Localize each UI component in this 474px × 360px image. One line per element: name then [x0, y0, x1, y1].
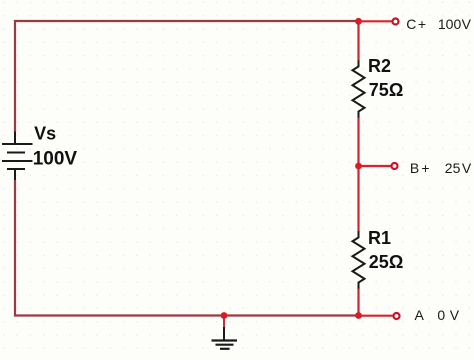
svg-text:100V: 100V	[33, 149, 78, 170]
battery Vs	[2, 132, 33, 181]
node C label	[406, 16, 471, 32]
terminal circle A	[394, 313, 400, 319]
svg-text:V: V	[450, 307, 460, 323]
wire: stub to terminal C	[359, 20, 393, 22]
wire: right vertical, R2 to B junction to R1	[357, 117, 359, 231]
wire: right vertical, top junction to R2	[357, 21, 359, 61]
svg-text:25Ω: 25Ω	[369, 252, 403, 272]
ground	[212, 316, 238, 349]
svg-text:0: 0	[437, 307, 445, 323]
junction: node B	[355, 163, 362, 170]
svg-text:A: A	[415, 307, 425, 323]
junction: bottom right node A	[355, 312, 362, 319]
node A label	[415, 307, 460, 323]
svg-text:+: +	[418, 16, 426, 32]
junction: ground node	[221, 312, 228, 319]
wire: bottom horizontal from left corner to node A junction	[14, 314, 360, 316]
wire: left vertical lower segment (battery - down to bottom corner)	[14, 180, 16, 317]
wire: left vertical upper segment (top corner down to battery +)	[14, 20, 16, 132]
junction: node C	[355, 18, 362, 25]
svg-text:R2: R2	[368, 56, 391, 76]
svg-text:C: C	[406, 16, 416, 32]
wire: right vertical, R1 to bottom junction	[357, 288, 359, 316]
terminal circle C	[393, 19, 399, 25]
svg-text:75Ω: 75Ω	[369, 80, 403, 100]
svg-text:R1: R1	[368, 228, 391, 248]
wire: top horizontal from left corner to node C junction	[14, 20, 359, 22]
svg-text:V: V	[462, 160, 472, 176]
wire: stub to terminal B	[359, 165, 392, 167]
svg-text:25: 25	[445, 160, 461, 176]
wire: stub to terminal A	[359, 315, 394, 317]
node B label	[410, 160, 472, 176]
resistor R2 (zigzag)	[353, 61, 365, 118]
svg-text:+: +	[421, 160, 429, 176]
terminal circle B	[392, 163, 398, 169]
svg-text:B: B	[410, 160, 419, 176]
resistor R1 (zigzag)	[353, 231, 365, 289]
svg-text:100: 100	[438, 16, 462, 32]
svg-text:Vs: Vs	[34, 123, 56, 143]
svg-text:V: V	[462, 16, 472, 32]
